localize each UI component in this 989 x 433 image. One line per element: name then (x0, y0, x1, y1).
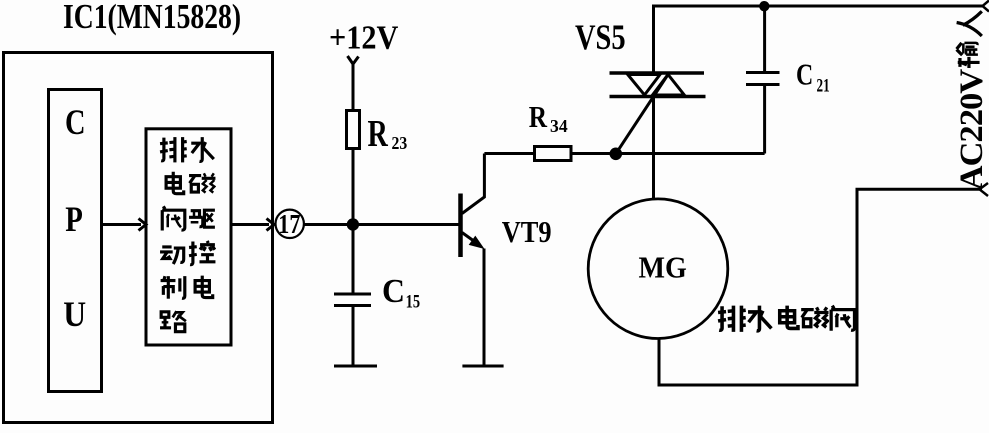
svg-text:C: C (796, 57, 813, 92)
svg-text:R: R (529, 101, 548, 135)
svg-text:C: C (65, 103, 86, 143)
svg-text:MG: MG (639, 252, 687, 285)
svg-text:21: 21 (817, 77, 830, 97)
svg-text:P: P (65, 200, 83, 240)
svg-text:15: 15 (406, 291, 420, 312)
svg-text:U: U (63, 295, 86, 334)
svg-text:+12V: +12V (329, 18, 398, 56)
svg-text:AC220V: AC220V (954, 68, 989, 190)
svg-text:VT9: VT9 (502, 215, 552, 249)
svg-text:C: C (382, 273, 405, 310)
svg-text:R: R (368, 113, 389, 155)
svg-text:IC1(MN15828): IC1(MN15828) (63, 0, 241, 36)
svg-text:23: 23 (392, 133, 408, 153)
svg-text:17: 17 (278, 210, 300, 240)
svg-text:VS5: VS5 (575, 17, 626, 57)
svg-text:34: 34 (550, 116, 568, 136)
